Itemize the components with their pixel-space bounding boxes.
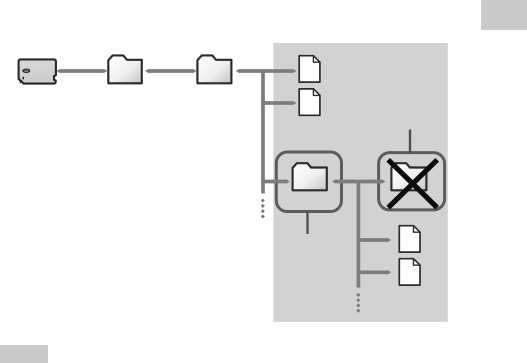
- folder F4 inside box B2: [391, 163, 426, 190]
- document P2: [299, 89, 320, 115]
- folder F2: [197, 55, 231, 83]
- wire lower vertical to document P3 arrow: [357, 238, 392, 243]
- folder F1: [108, 55, 142, 83]
- wire folder F2 to document P1 double arrow: [236, 69, 297, 74]
- folder box B1: [276, 152, 341, 212]
- wire trunk to folder box B1 arrow: [261, 179, 290, 184]
- corner tab top-right: [481, 0, 527, 30]
- folder F3 inside box B1: [293, 163, 327, 190]
- gray panel background: [273, 43, 448, 322]
- stub line below folder box B1: [306, 212, 308, 234]
- wire card to folder F1 double arrow: [56, 69, 107, 74]
- wire trunk vertical: [261, 70, 265, 194]
- wire trunk to document P2 arrow: [261, 101, 296, 106]
- dotted lower continuation: [356, 293, 360, 313]
- dotted trunk continuation: [261, 198, 265, 218]
- wire lower vertical: [357, 182, 361, 288]
- corner tab bottom-left: [0, 345, 48, 363]
- stub line above crossed box B2: [409, 130, 411, 154]
- document P3: [399, 226, 420, 252]
- memory card: [19, 59, 56, 83]
- wire lower vertical to document P4 arrow: [357, 270, 392, 275]
- X cross mark: [388, 160, 437, 208]
- document P1: [299, 56, 320, 82]
- crossed box B2: [379, 153, 445, 210]
- wire folder box B1 to crossed box B2 double arrow: [332, 179, 386, 184]
- wire folder F1 to folder F2 double arrow: [145, 69, 197, 74]
- document P4: [399, 259, 420, 285]
